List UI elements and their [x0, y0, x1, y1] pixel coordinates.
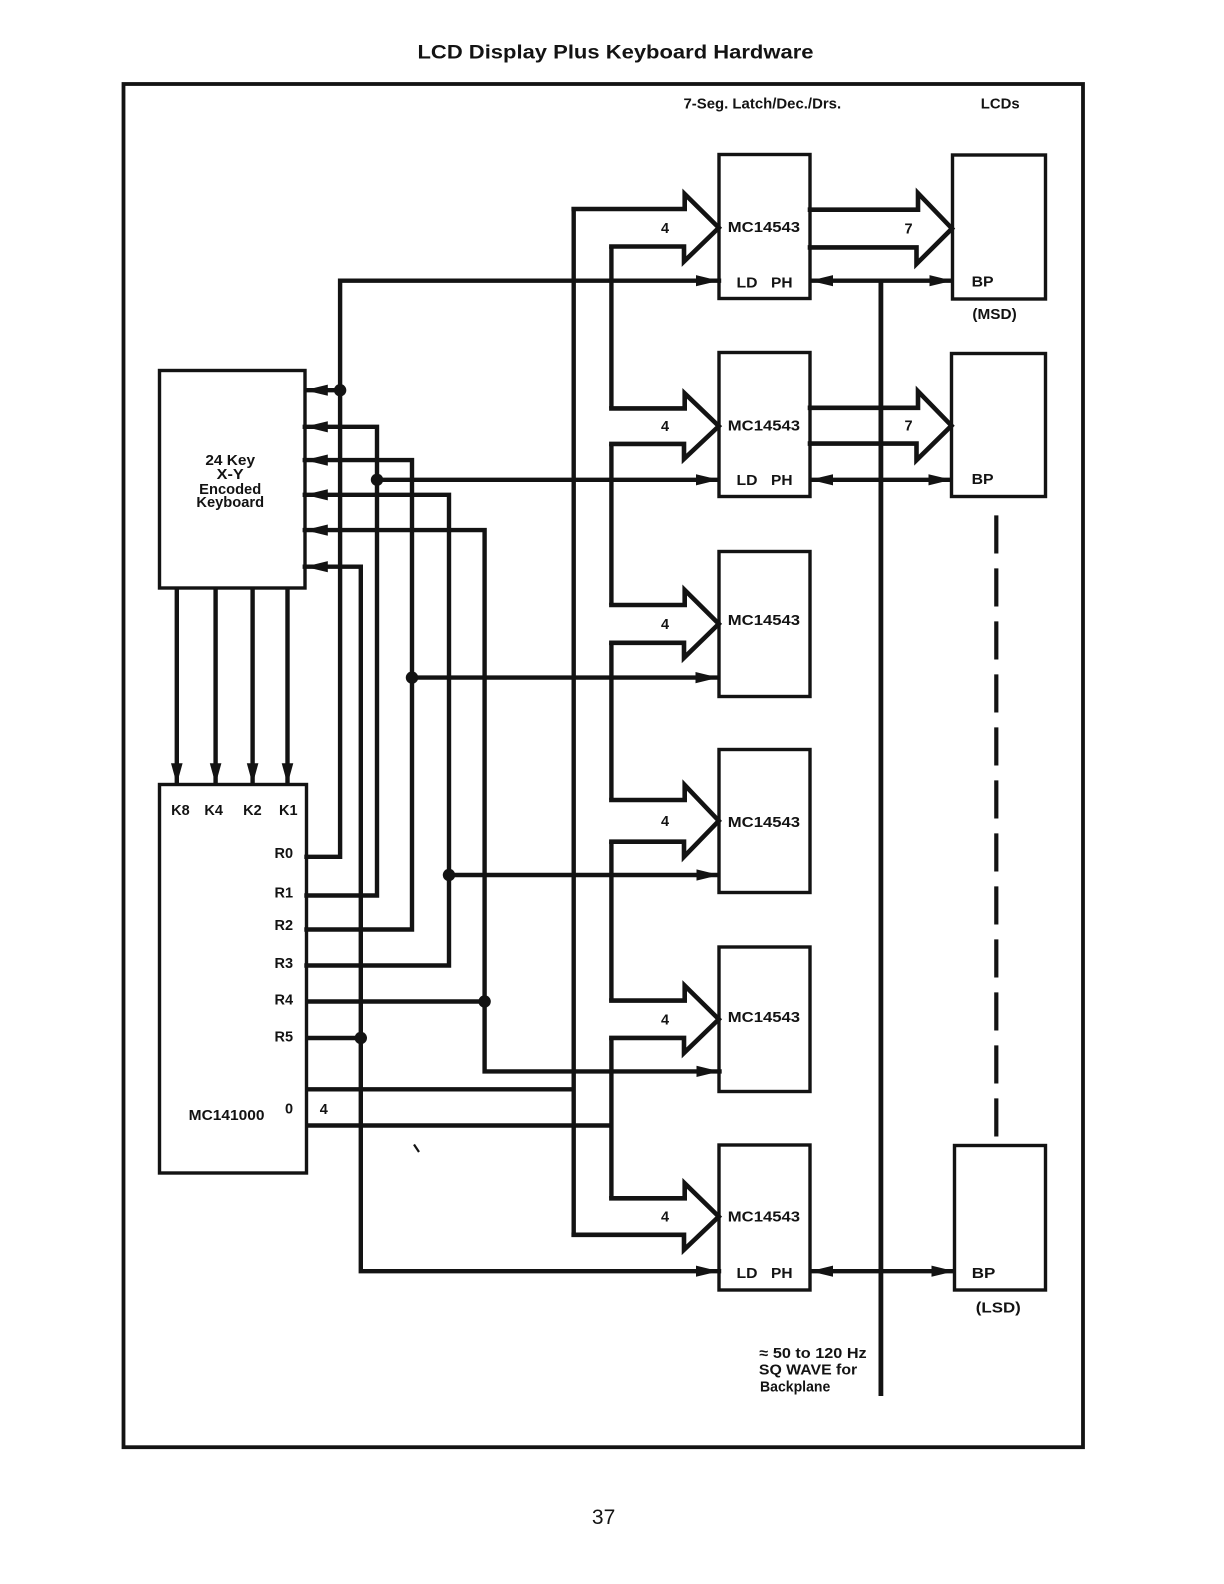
svg-text:BP: BP — [972, 275, 994, 291]
svg-text:R2: R2 — [275, 918, 294, 934]
wire K2 keyboard to U7 — [250, 588, 254, 783]
wire bus line A from U7 — [307, 1087, 574, 1091]
wire R4 stub from U7.R4 — [307, 999, 485, 1003]
arrowhead R5 into keyboard — [305, 561, 328, 572]
svg-text:K4: K4 — [204, 803, 223, 819]
arrowhead R3 into keyboard — [305, 489, 328, 500]
encoder U7 MC141000 body — [160, 785, 307, 1174]
arrowhead R1 into keyboard — [305, 421, 328, 432]
wire bus B segment U2-U3 — [609, 444, 613, 605]
svg-text:7: 7 — [904, 221, 912, 237]
decoder U5 MC14543 body — [719, 947, 810, 1092]
wire R3 branch to U4.LD — [449, 873, 720, 877]
svg-text:MC14543: MC14543 — [728, 419, 800, 435]
decoder U6 MC14543 body — [719, 1145, 810, 1290]
LCD display DS3 (LSD) body — [955, 1146, 1046, 1291]
wire net R3 (U7.R3 to keyboard row 4) — [305, 495, 449, 966]
svg-text:4: 4 — [661, 617, 669, 633]
wire U2.PH to DS2.BP — [810, 478, 952, 482]
bus arrow 4-wide into U2 — [611, 393, 718, 459]
svg-text:PH: PH — [771, 473, 793, 489]
junction node R0/keyboard — [334, 384, 346, 396]
wire bus B segment U1-U2 — [609, 247, 613, 409]
arrowhead K2 into U7 — [247, 763, 259, 784]
arrowhead into U1.PH — [810, 275, 833, 286]
arrowhead R5 into U6.LD — [696, 1266, 719, 1277]
svg-text:SQ WAVE for: SQ WAVE for — [759, 1363, 858, 1379]
decoder U1 MC14543 body — [719, 155, 810, 299]
LCD display DS1 (MSD) body — [953, 155, 1046, 299]
svg-text:X-Y: X-Y — [217, 467, 244, 483]
arrowhead into DS3.BP — [932, 1266, 955, 1277]
wire net R2 (U7.R2 to keyboard row 3) — [305, 460, 412, 929]
svg-text:MC14543: MC14543 — [728, 1210, 800, 1226]
wire bus B segment U3-U4 — [609, 643, 613, 800]
arrowhead into DS1.BP — [930, 275, 953, 286]
svg-text:4: 4 — [661, 814, 669, 830]
bus arrow 4-wide into U6 — [574, 1183, 719, 1250]
svg-text:MC141000: MC141000 — [189, 1108, 265, 1124]
dashed wire LCD chain — [994, 515, 998, 1140]
svg-text:Backplane: Backplane — [760, 1380, 830, 1396]
bus arrow 4-wide into U1 — [574, 194, 719, 262]
svg-text:MC14543: MC14543 — [728, 613, 800, 629]
arrowhead K8 into U7 — [171, 763, 183, 784]
bus arrow 7-wide U2 to DS2 — [810, 391, 952, 460]
wire U1.PH to DS1.BP — [810, 279, 953, 283]
svg-text:R3: R3 — [275, 956, 294, 972]
wire net R0 (U7.R0 to keyboard and U1.LD) — [307, 281, 720, 857]
wire R1 branch to U2.LD — [377, 478, 719, 482]
svg-text:LD: LD — [737, 1266, 758, 1282]
wire bus line B from U7 — [307, 1123, 612, 1127]
svg-text:LCDs: LCDs — [981, 97, 1020, 113]
svg-text:LD: LD — [737, 473, 758, 489]
junction node R4 stub — [478, 995, 490, 1007]
wire U6.PH to DS3.BP — [810, 1269, 955, 1273]
junction node R2/U3.LD — [406, 671, 418, 683]
wire R2 branch to U3.LD — [412, 675, 719, 679]
bus arrow 4-wide into U4 — [611, 785, 718, 857]
svg-text:K2: K2 — [243, 803, 262, 819]
wire net R5 (keyboard row 6 to U6.LD) — [305, 567, 719, 1271]
arrowhead into DS2.BP — [929, 474, 952, 485]
arrowhead R2 into keyboard — [305, 455, 328, 466]
arrowhead K1 into U7 — [282, 763, 294, 784]
svg-text:BP: BP — [972, 472, 994, 488]
svg-text:4: 4 — [661, 419, 669, 435]
wire K4 keyboard to U7 — [213, 588, 217, 783]
svg-text:LCD Display Plus Keyboard Hard: LCD Display Plus Keyboard Hardware — [418, 42, 814, 64]
bus arrow 4-wide into U5 — [611, 986, 718, 1053]
wire net R1 (U7.R1 to keyboard row 2) — [305, 427, 377, 896]
svg-text:R5: R5 — [275, 1029, 294, 1045]
junction node R3/U4.LD — [443, 869, 455, 881]
wire R0 branch to keyboard row 1 — [306, 388, 340, 392]
svg-text:MC14543: MC14543 — [728, 815, 800, 831]
svg-text:K8: K8 — [171, 803, 190, 819]
svg-text:K1: K1 — [279, 803, 298, 819]
wire bus B segment U5-U6 — [609, 1038, 613, 1198]
arrowhead R3 into U4.LD — [697, 869, 720, 880]
keyboard block body — [160, 371, 306, 589]
svg-text:4: 4 — [661, 1210, 669, 1226]
wire K1 keyboard to U7 — [285, 588, 289, 783]
bus arrow 7-wide U1 to DS1 — [810, 193, 952, 264]
wire bus B segment U4-U5 — [609, 842, 613, 1001]
LCD display DS2 body — [952, 354, 1046, 497]
arrowhead R0 into keyboard — [305, 385, 328, 396]
arrowhead R1 into U2.LD — [696, 474, 719, 485]
svg-text:LD: LD — [737, 275, 758, 291]
svg-text:R0: R0 — [275, 846, 294, 862]
svg-text:R1: R1 — [275, 885, 294, 901]
svg-text:R4: R4 — [275, 993, 294, 1009]
decoder U3 MC14543 body — [719, 552, 810, 697]
page border frame — [124, 84, 1084, 1447]
svg-text:PH: PH — [771, 1266, 793, 1282]
svg-text:4: 4 — [661, 221, 669, 237]
arrowhead R2 into U3.LD — [696, 672, 719, 683]
svg-text:4: 4 — [320, 1102, 328, 1118]
svg-text:PH: PH — [771, 275, 793, 291]
svg-text:(MSD): (MSD) — [972, 307, 1016, 323]
wire K8 keyboard to U7 — [175, 588, 179, 783]
wire backplane square-wave vertical — [879, 281, 884, 1396]
bus arrow 4-wide into U3 — [611, 590, 718, 658]
junction node R1/U2.LD — [371, 474, 383, 486]
arrowhead R4 into keyboard — [305, 525, 328, 536]
svg-text:Keyboard: Keyboard — [196, 495, 264, 511]
wire net R4 (keyboard row 5 to U5.LD) — [305, 530, 720, 1071]
arrowhead R0 into U1.LD — [696, 275, 719, 286]
svg-text:≈ 50 to 120 Hz: ≈ 50 to 120 Hz — [759, 1346, 866, 1362]
svg-text:MC14543: MC14543 — [728, 1010, 800, 1026]
decoder U4 MC14543 body — [719, 750, 810, 893]
arrowhead R4 into U5.LD — [697, 1066, 720, 1077]
wire bus line A vertical — [572, 209, 576, 1235]
svg-text:0: 0 — [285, 1102, 293, 1118]
wire R5 stub from U7.R5 — [307, 1036, 361, 1040]
svg-text:7-Seg. Latch/Dec./Drs.: 7-Seg. Latch/Dec./Drs. — [684, 97, 842, 113]
svg-text:BP: BP — [972, 1266, 996, 1282]
svg-text:7: 7 — [904, 419, 912, 435]
svg-text:37: 37 — [592, 1506, 615, 1529]
arrowhead into U2.PH — [810, 474, 833, 485]
arrowhead K4 into U7 — [210, 763, 222, 784]
stray mark — [414, 1145, 419, 1153]
junction node R5 stub — [355, 1032, 367, 1044]
svg-text:MC14543: MC14543 — [728, 220, 800, 236]
svg-text:(LSD): (LSD) — [976, 1301, 1021, 1317]
svg-text:4: 4 — [661, 1012, 669, 1028]
decoder U2 MC14543 body — [719, 353, 810, 497]
arrowhead into U6.PH — [810, 1266, 833, 1277]
